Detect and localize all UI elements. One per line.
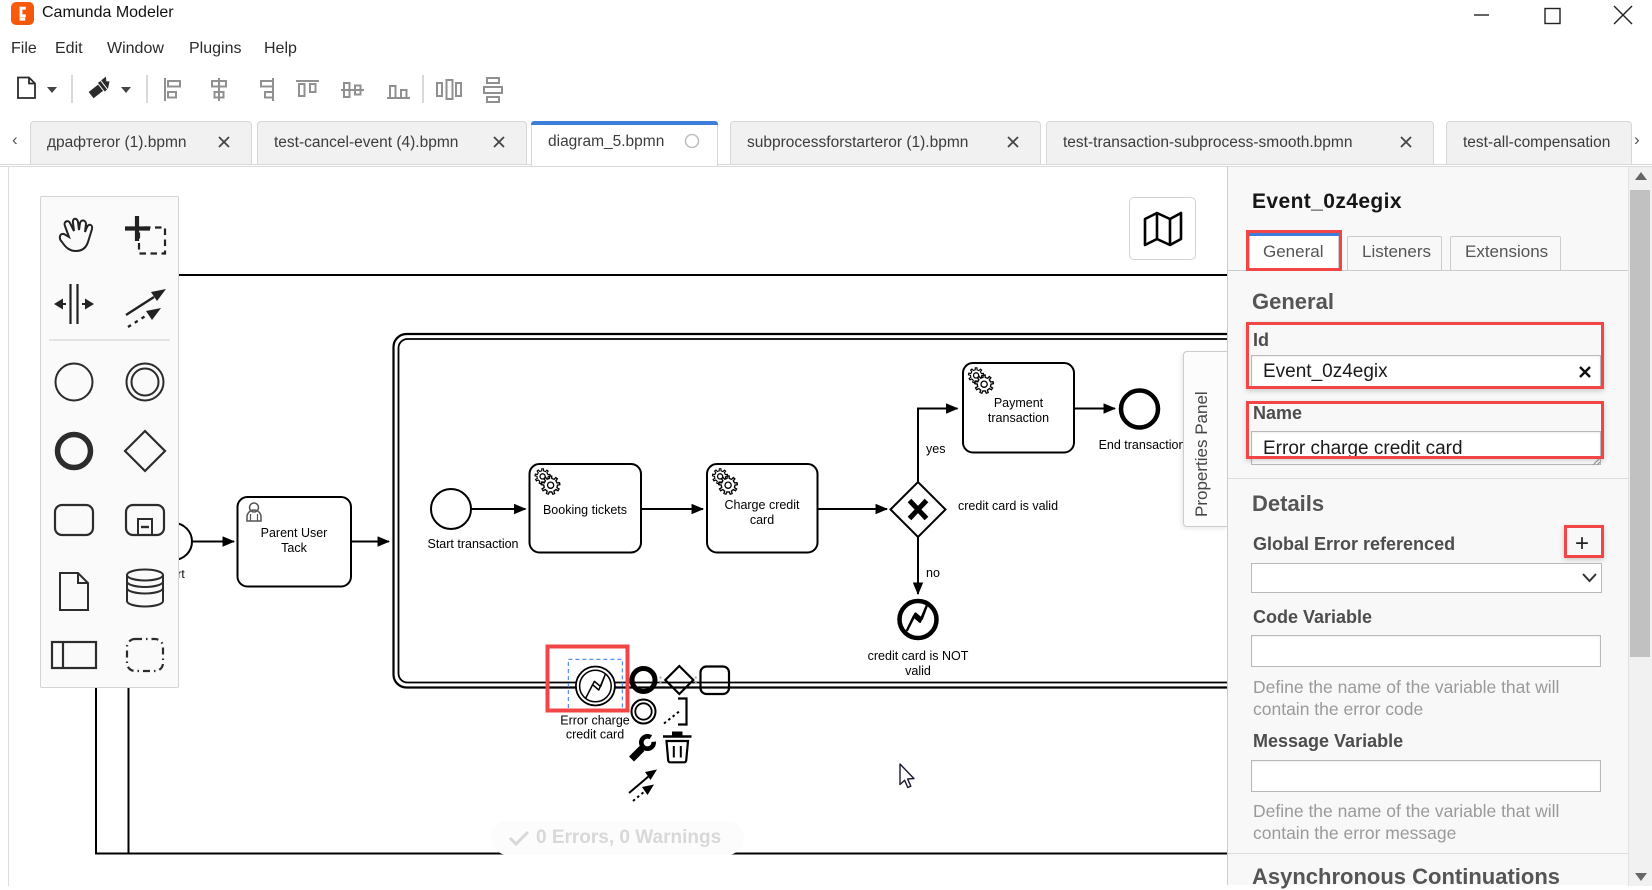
end event icon (632, 669, 655, 692)
red box around General tab (1246, 230, 1342, 271)
gateway icon (125, 431, 165, 471)
svg-text:transaction: transaction (988, 411, 1049, 425)
context pad (629, 666, 729, 801)
boundary error event (selected) (576, 667, 615, 706)
selection dashed box (568, 659, 622, 710)
General heading (1252, 289, 1334, 315)
align right (261, 78, 273, 101)
data object icon (60, 573, 88, 610)
space tool (54, 284, 94, 324)
align top (296, 81, 319, 96)
svg-text:yes: yes (926, 442, 945, 456)
intermediate event icon (127, 364, 164, 401)
text annotation icon (678, 699, 687, 725)
Asynchronous Continuations heading (cut off) (1252, 864, 1560, 890)
flow to Charge credit card (641, 508, 703, 510)
service task Booking tickets (530, 464, 642, 553)
lane divider (128, 275, 130, 854)
svg-text:Charge credit: Charge credit (724, 498, 800, 512)
pool bottom edge (95, 853, 1227, 855)
title (1252, 190, 1402, 214)
status pill 0 Errors, 0 Warnings (491, 821, 744, 855)
connect icon (629, 770, 657, 802)
intermediate event icon (632, 700, 656, 724)
lasso tool (125, 216, 165, 254)
select (1251, 563, 1602, 593)
new file icon (18, 78, 35, 99)
trash icon (663, 732, 692, 763)
sequence flow into subprocess (351, 541, 389, 543)
transaction subprocess (double border) (394, 334, 1240, 688)
svg-text:Start transaction: Start transaction (427, 537, 518, 551)
task icon (701, 667, 730, 695)
flow to end event (1074, 408, 1115, 410)
scrollbar (1628, 167, 1652, 886)
mouse cursor (900, 764, 914, 788)
window controls (1460, 0, 1652, 28)
service task Charge credit card (707, 464, 818, 553)
svg-text:credit card is valid: credit card is valid (958, 499, 1058, 513)
sequence flow to Parent User Tack (193, 541, 235, 543)
separator (49, 339, 170, 341)
svg-text:Tack: Tack (281, 541, 307, 555)
minimap toggle button (1129, 197, 1196, 260)
svg-text:Parent User: Parent User (261, 526, 328, 540)
svg-text:Booking tickets: Booking tickets (543, 503, 627, 517)
global connect tool (126, 289, 166, 327)
end event icon (58, 435, 91, 468)
subprocess icon (126, 505, 164, 535)
svg-text:End transaction: End transaction (1099, 438, 1186, 452)
align left (165, 78, 180, 101)
distribute v (484, 78, 502, 102)
distribute h (437, 80, 461, 99)
flow to Booking tickets (471, 508, 526, 510)
Details heading (1252, 491, 1324, 517)
align middle (341, 83, 364, 97)
Message Variable (1253, 731, 1403, 752)
Id group (1253, 330, 1269, 351)
properties panel vertical tab (1183, 351, 1228, 527)
error end event credit card is NOT valid (900, 601, 937, 638)
wrench icon (632, 729, 665, 759)
service task Payment transaction (963, 363, 1074, 453)
no flow (917, 537, 919, 594)
pool top edge (95, 274, 1227, 276)
svg-text:Payment: Payment (994, 396, 1044, 410)
start event icon (56, 364, 93, 401)
align center-v (212, 78, 226, 101)
exclusive gateway (891, 482, 946, 537)
svg-text:credit card is NOT: credit card is NOT (868, 649, 969, 663)
start event (outer process, behind palette) (155, 523, 192, 560)
svg-text:Error charge: Error charge (560, 714, 630, 728)
svg-text:no: no (926, 566, 940, 580)
hand tool (60, 219, 92, 251)
red annotation box around boundary event (548, 647, 628, 711)
participant icon (52, 642, 96, 668)
task icon (55, 505, 93, 535)
group icon (127, 639, 163, 671)
svg-text:credit card: credit card (566, 728, 624, 742)
pool left edge (95, 275, 97, 854)
svg-text:valid: valid (905, 664, 931, 678)
data store icon (127, 570, 163, 607)
end event End transaction (1121, 391, 1158, 428)
svg-text:card: card (750, 513, 774, 527)
Name group (1253, 403, 1302, 424)
Global Error referenced (1253, 534, 1455, 555)
tabs (1228, 270, 1628, 271)
Code Variable (1253, 607, 1372, 628)
flow to gateway (818, 508, 888, 510)
brush icon (88, 77, 113, 100)
yes flow (918, 409, 958, 483)
gateway icon (665, 666, 693, 694)
align bottom (387, 86, 410, 98)
start event Start transaction (431, 489, 471, 529)
task Parent User Tack (238, 497, 352, 587)
